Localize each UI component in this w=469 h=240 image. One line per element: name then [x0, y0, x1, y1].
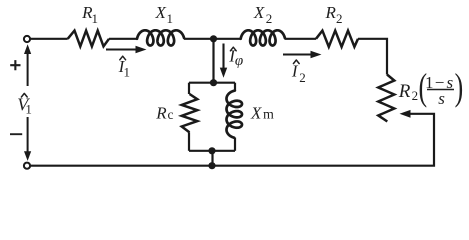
svg-text:1: 1: [124, 65, 131, 80]
svg-text:m: m: [263, 107, 274, 122]
svg-text:φ: φ: [235, 53, 243, 69]
svg-text:X: X: [250, 103, 262, 122]
svg-text:2: 2: [412, 88, 419, 103]
svg-text:X: X: [155, 3, 167, 22]
svg-text:1: 1: [92, 11, 99, 26]
svg-text:X: X: [253, 3, 265, 22]
svg-text:2: 2: [266, 11, 273, 26]
svg-text:2: 2: [336, 11, 343, 26]
svg-text:1: 1: [25, 102, 32, 117]
svg-text:R: R: [398, 81, 411, 102]
svg-text:c: c: [168, 107, 174, 122]
svg-text:): ): [455, 67, 464, 109]
svg-text:R: R: [155, 103, 167, 122]
svg-text:s: s: [438, 89, 445, 108]
svg-text:1: 1: [167, 11, 174, 26]
svg-text:2: 2: [299, 70, 306, 85]
svg-text:R: R: [325, 3, 337, 22]
